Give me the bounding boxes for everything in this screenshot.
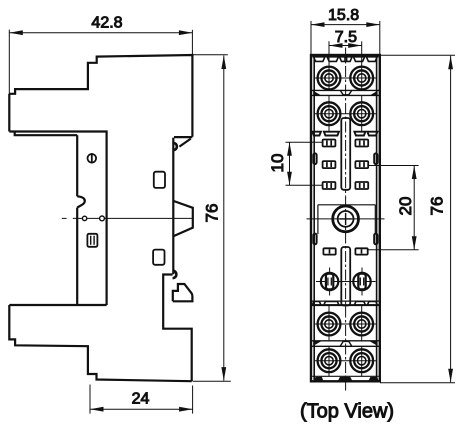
- svg-text:(Top View): (Top View): [300, 401, 394, 423]
- svg-text:15.8: 15.8: [328, 7, 359, 24]
- svg-text:10: 10: [268, 154, 287, 173]
- svg-text:7.5: 7.5: [335, 29, 357, 46]
- svg-text:20: 20: [396, 197, 415, 216]
- svg-text:24: 24: [132, 390, 150, 407]
- svg-text:76: 76: [427, 197, 446, 216]
- svg-text:42.8: 42.8: [91, 15, 122, 32]
- svg-text:76: 76: [202, 204, 221, 223]
